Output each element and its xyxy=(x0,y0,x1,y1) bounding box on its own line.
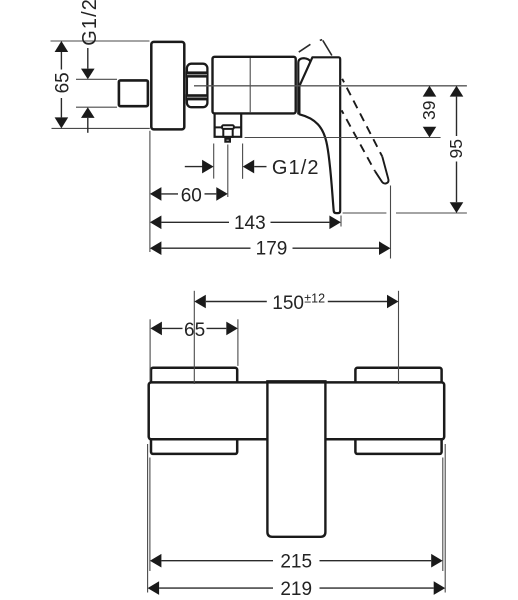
wall escutcheon (side view) xyxy=(151,42,184,129)
dimension 39 xyxy=(419,86,439,138)
dimension 179 xyxy=(150,238,391,259)
svg-text:65: 65 xyxy=(52,72,73,93)
dimension 65 (front) xyxy=(150,320,237,341)
svg-text:±12: ±12 xyxy=(304,292,325,306)
dimension 95 xyxy=(446,86,466,213)
dimension 150±12 xyxy=(194,292,398,315)
concealed wall fitting (thin reference rectangle) xyxy=(51,41,150,128)
connection center extension lines xyxy=(193,291,195,384)
handle lever (solid, down position) xyxy=(299,57,340,213)
union nut xyxy=(186,64,209,107)
svg-text:215: 215 xyxy=(280,551,312,572)
dimension 215 xyxy=(150,551,443,572)
right wall escutcheon (front) xyxy=(355,368,441,454)
outlet edge extension lines xyxy=(213,144,215,179)
svg-text:G1/2: G1/2 xyxy=(79,0,101,46)
bottom extension lines xyxy=(147,444,149,593)
svg-text:65: 65 xyxy=(184,320,205,341)
dashed-lever tip extension xyxy=(390,186,392,259)
centerline through body xyxy=(194,85,467,87)
extension line at y137 xyxy=(245,137,441,139)
svg-text:60: 60 xyxy=(181,186,202,207)
svg-text:143: 143 xyxy=(234,213,266,234)
outlet centerline extension xyxy=(227,145,229,198)
extension line at y213 xyxy=(343,212,387,214)
label G1/2 (shower outlet) xyxy=(185,157,320,179)
mixer body bar (front) xyxy=(149,382,445,439)
svg-text:G1/2: G1/2 xyxy=(272,157,320,179)
bar top edge over handle xyxy=(266,381,326,384)
label G1/2 (top inlet thread) xyxy=(76,0,117,133)
svg-text:179: 179 xyxy=(256,238,288,259)
handle pivot base xyxy=(298,58,312,113)
svg-text:150: 150 xyxy=(272,293,304,314)
wall face extension line xyxy=(149,131,151,252)
dimension 219 xyxy=(148,579,446,600)
svg-text:95: 95 xyxy=(446,139,466,158)
mixer body xyxy=(213,57,296,114)
lever tip extension xyxy=(340,216,342,227)
lever alternate position (dashed) xyxy=(342,79,389,184)
svg-text:219: 219 xyxy=(280,579,312,600)
dimension 65 (left vertical) xyxy=(52,41,73,128)
dimension 143 xyxy=(150,213,341,234)
svg-text:39: 39 xyxy=(419,100,439,119)
left wall escutcheon (front) xyxy=(151,368,237,454)
lever raised position (thin lines) xyxy=(299,40,332,56)
escutcheon width extension lines xyxy=(149,319,151,380)
body inner seam line xyxy=(249,58,251,112)
dimension 60 xyxy=(150,186,228,207)
handle (front) xyxy=(267,381,325,537)
square inlet spigot xyxy=(119,80,148,106)
shower outlet (bottom port) xyxy=(214,115,242,142)
